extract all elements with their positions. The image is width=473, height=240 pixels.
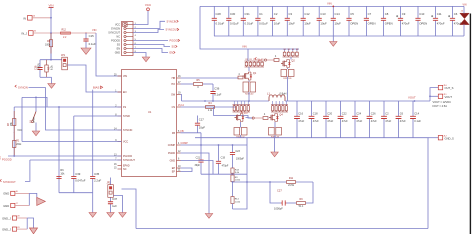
wire VIN rail [200, 6, 299, 49]
wire GND_J2 pin [17, 228, 28, 230]
svg-text:C27: C27 [277, 189, 282, 193]
wire sense to Q1 [248, 67, 250, 71]
wire to input gnd [332, 36, 334, 42]
svg-text:GND_S: GND_S [445, 136, 454, 140]
capacitor C5 [346, 6, 358, 36]
svg-text:SS: SS [117, 44, 121, 47]
svg-text:R1: R1 [249, 59, 251, 61]
svg-text:GND: GND [115, 52, 121, 55]
wire CS [181, 106, 237, 108]
capacitor C14 [331, 6, 341, 36]
wire to ground [51, 77, 53, 83]
wire comp right [246, 138, 248, 182]
ground [81, 48, 91, 54]
wire HO gate [267, 59, 274, 61]
svg-text:SYNCIN: SYNCIN [123, 129, 132, 132]
svg-text:SS: SS [172, 45, 176, 49]
wire to U1 p8 [74, 115, 122, 117]
svg-text:C16: C16 [298, 111, 303, 115]
junction [200, 144, 202, 146]
svg-text:C21: C21 [196, 156, 201, 159]
ground [107, 213, 114, 218]
svg-text:261k: 261k [16, 144, 22, 146]
wire power gnd bus [195, 137, 429, 139]
net label VOUT [408, 96, 416, 100]
wire pullup column [13, 107, 15, 156]
wire LO gate [214, 107, 252, 118]
capacitor C19 [216, 145, 229, 174]
svg-text:R1: R1 [292, 49, 294, 51]
wire gnd stub [274, 138, 276, 152]
svg-text:SYNCOUT: SYNCOUT [108, 32, 120, 35]
svg-text:R1: R1 [284, 49, 286, 51]
svg-text:47uF: 47uF [327, 119, 333, 123]
junction [218, 144, 220, 146]
label VOUT [445, 95, 453, 99]
svg-text:6.2k: 6.2k [50, 65, 53, 70]
svg-text:C18: C18 [313, 111, 318, 115]
net label VCC [17, 129, 22, 132]
snubber R38 C43 [269, 128, 282, 139]
svg-text:470pF: 470pF [222, 164, 229, 167]
net label SYNCOUT [0, 179, 16, 184]
svg-text:10pF: 10pF [199, 125, 206, 129]
resistor R9g [274, 59, 279, 62]
wire SYNCOUT [30, 159, 122, 161]
svg-text:C5: C5 [350, 12, 354, 16]
svg-text:C30: C30 [230, 12, 236, 16]
capacitor C2 [270, 6, 280, 36]
svg-text:R1: R1 [296, 49, 298, 51]
wire VCC to J1 [133, 11, 148, 25]
junction [232, 181, 234, 183]
svg-text:U1: U1 [148, 110, 152, 114]
junction [232, 144, 234, 146]
capacitor C12 [301, 6, 311, 36]
svg-text:47uF: 47uF [342, 119, 348, 123]
capacitor C2 [381, 101, 392, 138]
svg-text:C8: C8 [385, 12, 389, 16]
svg-text:2.2uF: 2.2uF [94, 179, 101, 183]
svg-text:1.82k: 1.82k [235, 180, 241, 182]
label R3a [8, 121, 13, 126]
wire input gnd bus [214, 35, 464, 37]
wire VCC to U1 [22, 141, 122, 143]
resistor R13 [231, 168, 240, 174]
svg-text:0.047uF: 0.047uF [75, 179, 86, 183]
svg-text:C7: C7 [368, 12, 372, 16]
wire FB [181, 132, 202, 134]
connector pin GND [3, 191, 18, 196]
wire snubber box left [270, 182, 281, 203]
svg-text:C3: C3 [289, 12, 293, 16]
resistor R1 [13, 132, 16, 156]
wire PGND to gnd [181, 153, 210, 214]
svg-text:1uF: 1uF [112, 204, 117, 208]
capacitor C38 [37, 60, 42, 78]
net label SS [172, 45, 178, 49]
wire C37 gnd [110, 208, 112, 213]
svg-text:0.8uH: 0.8uH [280, 91, 287, 95]
svg-text:1000pF: 1000pF [236, 158, 245, 161]
svg-text:EN: EN [170, 51, 174, 55]
connector pin OUT_S [438, 85, 447, 90]
svg-text:CS: CS [172, 106, 176, 109]
snubber R32 C42 [234, 128, 247, 139]
net label VIN [327, 2, 332, 6]
terminal J2 VIN [460, 3, 469, 24]
svg-text:VOUT = 12VDC: VOUT = 12VDC [433, 100, 452, 104]
wire GND_J pin [17, 217, 28, 219]
net label VIN rail [242, 44, 247, 48]
wire JP2 right [114, 196, 123, 213]
wire gnd return left [122, 189, 137, 229]
net label SYNCIN [15, 85, 28, 90]
wire SYNCOUT down [25, 160, 30, 181]
svg-text:GND: GND [3, 204, 9, 208]
svg-text:IN: IN [23, 16, 26, 20]
svg-text:SYNCIN: SYNCIN [18, 86, 28, 90]
wire VCC column [21, 97, 23, 141]
svg-text:VIN: VIN [48, 3, 53, 7]
svg-text:VIN: VIN [123, 75, 127, 78]
wire HO [181, 83, 194, 85]
svg-text:OPEN: OPEN [38, 63, 41, 70]
capacitor C21 [195, 133, 204, 174]
junction [85, 32, 87, 34]
svg-text:47uF: 47uF [400, 119, 406, 123]
junction [50, 59, 52, 61]
svg-text:C6: C6 [400, 111, 404, 115]
junction [204, 100, 206, 102]
svg-text:21.5k: 21.5k [288, 184, 295, 187]
label R2 [45, 40, 51, 46]
capacitor C8 [381, 6, 393, 36]
wire VOUT rail [285, 100, 430, 102]
op-amp U1 [122, 70, 177, 177]
wire sense taps [234, 101, 248, 105]
wire to VOUT pin [430, 95, 438, 97]
svg-text:COMP: COMP [168, 144, 176, 147]
svg-text:1000pF: 1000pF [274, 207, 283, 211]
capacitor C13 [317, 6, 327, 36]
capacitor C6 [396, 101, 407, 138]
svg-text:HB: HB [172, 77, 176, 80]
wire Q2 to snubber [287, 68, 289, 69]
svg-text:VIN: VIN [327, 2, 332, 6]
power VIN [48, 3, 53, 7]
svg-text:0.01uF: 0.01uF [259, 22, 268, 26]
svg-text:C11: C11 [437, 12, 442, 16]
junction [414, 100, 416, 102]
junction [246, 181, 248, 183]
svg-text:R11: R11 [289, 177, 294, 180]
ground [32, 131, 39, 136]
wire divider to comp [233, 182, 248, 209]
net label HO [255, 57, 262, 62]
ground arrow [30, 228, 38, 234]
svg-text:C9: C9 [402, 12, 406, 16]
svg-text:IN_J: IN_J [21, 32, 27, 36]
wire HO 2 [203, 83, 213, 85]
wire gate joint [267, 117, 269, 120]
wire terminal to gnd bus [463, 24, 465, 36]
svg-text:FB: FB [181, 130, 184, 133]
junction [58, 106, 60, 108]
wire Q3 to snubber [240, 122, 242, 128]
net label PGOOD [0, 157, 12, 162]
capacitor C39 [71, 161, 86, 193]
svg-text:OPEN: OPEN [419, 22, 427, 26]
net label VIN [92, 28, 96, 32]
wire J1 PGOOD [133, 40, 168, 42]
svg-text:C22: C22 [342, 111, 347, 115]
junction [35, 97, 37, 99]
label R10g [264, 113, 266, 116]
svg-text:JP1: JP1 [61, 54, 66, 57]
capacitor C11 [431, 6, 445, 36]
svg-text:0.01uF: 0.01uF [245, 22, 254, 26]
net label LO [241, 111, 248, 116]
resistor R8 [238, 76, 243, 79]
wire GND pin [15, 192, 29, 194]
wire to GND_S [429, 137, 438, 139]
svg-text:470uF: 470uF [437, 22, 445, 26]
svg-text:VCC: VCC [145, 3, 152, 7]
svg-text:PGOOD: PGOOD [123, 155, 132, 158]
svg-text:C36: C36 [214, 86, 220, 90]
svg-text:1.1k: 1.1k [208, 109, 213, 112]
wire box right [306, 182, 313, 203]
connector pin VOUT [438, 94, 447, 99]
wire RT top [22, 97, 47, 107]
ground [142, 57, 149, 62]
svg-text:EN: EN [123, 91, 127, 94]
svg-text:NC: NC [123, 168, 127, 171]
capacitor C30 [226, 6, 239, 36]
capacitor C24 [352, 101, 363, 138]
svg-text:47uF: 47uF [313, 119, 319, 123]
connector pin VIN [23, 15, 35, 20]
wire COMP [181, 144, 248, 146]
resistor bank R23-R26 [283, 49, 300, 57]
svg-text:COMP: COMP [181, 142, 189, 145]
junction [332, 6, 334, 8]
svg-text:R21 C40: R21 C40 [245, 93, 254, 95]
capacitor C10 [415, 6, 427, 36]
wire snubber to SW [248, 92, 250, 101]
svg-text:GND: GND [3, 192, 9, 196]
capacitor C3 [285, 6, 295, 36]
resistor R3a [13, 111, 16, 133]
svg-text:C2: C2 [385, 111, 389, 115]
wire J1 SS [133, 45, 170, 47]
wire to gnd [92, 193, 94, 213]
svg-text:10uF: 10uF [320, 22, 327, 26]
svg-text:VCC: VCC [17, 129, 22, 132]
wire bottom bus [59, 192, 93, 194]
wire JP1 to U1 EN [68, 65, 122, 92]
svg-text:0.1uF: 0.1uF [414, 119, 421, 123]
wire SW stub [181, 95, 182, 102]
svg-text:C35: C35 [94, 172, 100, 176]
resistor R3 [231, 174, 241, 181]
resistor R11 [287, 177, 296, 187]
connector pin GND_J2 [2, 227, 20, 232]
wire switch to gnd [35, 123, 37, 132]
wire RT to U1 [14, 106, 121, 108]
svg-text:470uF: 470uF [402, 22, 410, 26]
capacitor C36 [210, 84, 221, 101]
svg-text:VIN: VIN [92, 28, 96, 32]
wire C27 to R9 [286, 202, 296, 204]
wire comp bottom [201, 173, 247, 175]
svg-text:C39: C39 [75, 172, 81, 176]
wire VIN to sense [247, 49, 249, 61]
svg-text:0.1uF: 0.1uF [89, 42, 96, 46]
capacitor C26 [367, 101, 378, 138]
ground arrow [37, 197, 46, 205]
connector J1 pin names [108, 24, 120, 55]
ground [48, 84, 55, 89]
label C38 [35, 63, 41, 70]
svg-text:GND_J: GND_J [2, 216, 11, 220]
wire PGOOD to U1 [8, 155, 122, 157]
svg-text:OPEN: OPEN [350, 22, 358, 26]
svg-text:R12: R12 [62, 29, 67, 32]
svg-text:1.02k: 1.02k [235, 201, 241, 203]
svg-text:EN: EN [117, 48, 121, 51]
svg-text:R1: R1 [246, 59, 248, 61]
connector pin GND_J [2, 216, 20, 221]
svg-text:SYNCIN: SYNCIN [167, 20, 177, 24]
capacitor C35 [90, 158, 101, 193]
U1 left pins [114, 74, 135, 171]
svg-text:VOUT: VOUT [445, 95, 453, 99]
wire HB [181, 77, 239, 79]
wire BIAS column [92, 90, 94, 158]
wire LO gate 2 [254, 117, 263, 119]
resistor R9 [297, 198, 306, 208]
svg-text:GND: GND [170, 160, 176, 163]
svg-text:VIN: VIN [242, 44, 247, 48]
junction [212, 100, 214, 102]
resistor R6 [56, 169, 65, 178]
svg-text:VCC: VCC [115, 24, 120, 27]
wire SS cap [58, 107, 60, 193]
ground [89, 213, 96, 218]
capacitor C14 [410, 101, 421, 138]
snubber R22 C41 [281, 70, 294, 80]
junction [269, 181, 271, 183]
wire VIN to U1 [96, 33, 122, 76]
note VOUT spec [433, 100, 452, 108]
svg-text:C26: C26 [371, 111, 376, 115]
wire J1 GND [133, 53, 146, 58]
wire gnd return bottom [136, 228, 428, 230]
svg-text:C12: C12 [304, 12, 310, 16]
svg-text:C24: C24 [356, 111, 361, 115]
label R7 [48, 65, 54, 70]
svg-text:47uF: 47uF [298, 119, 304, 123]
transistor Q4 [269, 114, 283, 122]
svg-text:10uF: 10uF [289, 22, 296, 26]
capacitor C15 [83, 33, 96, 48]
svg-text:SYNCOUT: SYNCOUT [3, 180, 16, 184]
resistor bank R27-R31 [233, 105, 251, 113]
svg-text:0.1uF: 0.1uF [214, 93, 221, 97]
wire GND pin route [181, 161, 214, 175]
svg-text:OPEN: OPEN [33, 116, 35, 123]
svg-text:100k: 100k [45, 44, 51, 47]
svg-text:SYNCOUT: SYNCOUT [166, 28, 179, 32]
svg-text:C6: C6 [454, 12, 458, 16]
svg-text:C31: C31 [245, 12, 251, 16]
switch S1 [30, 112, 36, 124]
svg-text:C19: C19 [221, 156, 226, 159]
svg-text:C28: C28 [216, 12, 222, 16]
label OUT_S [445, 86, 454, 90]
svg-text:R22 C41: R22 C41 [283, 78, 292, 80]
svg-text:EP: EP [172, 171, 176, 174]
svg-text:C17: C17 [199, 118, 205, 122]
connector J1 [122, 22, 137, 56]
junction [248, 100, 250, 102]
svg-text:10uF: 10uF [335, 22, 342, 26]
junction [429, 95, 431, 97]
svg-text:PGOOD: PGOOD [2, 157, 12, 161]
wire SYNCIN to U1 [29, 88, 122, 130]
svg-text:SYNCIN: SYNCIN [111, 28, 120, 31]
svg-text:C1: C1 [259, 12, 263, 16]
junction [50, 17, 52, 19]
transistor Q1 [243, 72, 257, 80]
capacitor C28 [212, 6, 225, 36]
capacitor C37 [108, 197, 118, 208]
svg-text:C20: C20 [327, 111, 332, 115]
svg-text:C37: C37 [112, 197, 118, 201]
capacitor C20 [323, 101, 334, 138]
svg-text:PGND: PGND [168, 152, 175, 155]
net label SYNCIN [167, 20, 179, 24]
svg-text:OPEN: OPEN [368, 22, 376, 26]
svg-text:PGOOD: PGOOD [111, 40, 120, 43]
svg-text:47uF: 47uF [371, 119, 377, 123]
svg-text:C14: C14 [335, 12, 341, 16]
capacitor C1 [255, 6, 268, 36]
wire VIN vertical [50, 8, 52, 60]
svg-text:51.1: 51.1 [299, 205, 304, 208]
svg-text:SYNR: SYNR [123, 115, 130, 118]
wire VIN top bus [200, 5, 464, 7]
svg-text:C23: C23 [235, 150, 240, 153]
capacitor C16 [294, 101, 305, 138]
connector pin GND2 [3, 203, 18, 208]
wire divider mid [232, 182, 234, 197]
svg-text:C15: C15 [89, 34, 95, 38]
net label PGOOD [170, 39, 180, 43]
svg-text:BIAS: BIAS [93, 86, 100, 90]
wire switch top [35, 97, 37, 111]
connector pin VIN_J [21, 31, 36, 36]
snubber R21 C40 [243, 82, 256, 95]
junction [50, 32, 52, 34]
wire gnd return right [427, 138, 429, 229]
wire JP2 top [110, 178, 112, 185]
svg-text:C2: C2 [274, 12, 278, 16]
svg-text:HO: HO [171, 83, 175, 86]
capacitor C31 [241, 6, 254, 36]
